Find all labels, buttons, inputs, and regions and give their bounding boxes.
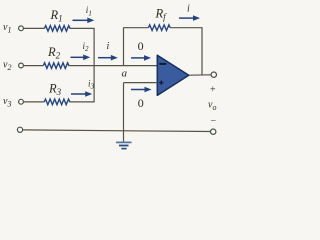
input terminal v3 (19, 99, 24, 104)
bottom rail wire (23, 130, 211, 132)
current arrow i (into node a) (98, 55, 118, 61)
svg-text:0: 0 (138, 96, 144, 110)
current arrow i3 (71, 91, 92, 97)
svg-text:+: + (210, 85, 216, 96)
op-amp inverting input marker (159, 63, 166, 65)
bottom right terminal (211, 129, 216, 134)
svg-text:i: i (187, 4, 190, 15)
feedback wire from node a up to Rf (124, 28, 149, 66)
op-amp U1 (157, 55, 189, 95)
ground (116, 142, 132, 148)
svg-text:a: a (122, 68, 128, 80)
input terminal v2 (19, 63, 24, 68)
current arrow 0 (inverting input current) (131, 55, 151, 61)
resistor R2 (43, 63, 69, 69)
resistor R1 (44, 26, 70, 32)
wire non-inverting input down to ground (123, 83, 125, 142)
svg-text:0: 0 (138, 39, 144, 53)
svg-text:i: i (107, 41, 110, 52)
bottom left terminal (17, 127, 22, 132)
resistor R3 (44, 99, 70, 105)
input terminal v1 (19, 26, 24, 31)
current arrow i (output, top right) (179, 15, 200, 21)
current arrow i1 (73, 18, 95, 24)
wire R1 to junction column (70, 27, 95, 29)
svg-text:−: − (211, 116, 217, 127)
wire v2 terminal to R2 (24, 65, 44, 67)
wire v1 terminal to R1 (24, 27, 45, 29)
wire R2 to op-amp inverting input (69, 65, 158, 67)
wire R3 to junction column (69, 101, 94, 103)
junction column wire (93, 28, 95, 102)
output terminal (211, 72, 216, 77)
current arrow i2 (71, 55, 91, 61)
feedback wire from Rf down to output (170, 28, 202, 75)
resistor Rf (148, 25, 170, 31)
op-amp non-inverting input marker (159, 81, 163, 85)
wire non-inverting input (124, 82, 158, 84)
current arrow 0 (non-inverting input current) (131, 87, 152, 93)
wire v3 terminal to R3 (24, 101, 45, 103)
wire op-amp output (189, 74, 211, 76)
